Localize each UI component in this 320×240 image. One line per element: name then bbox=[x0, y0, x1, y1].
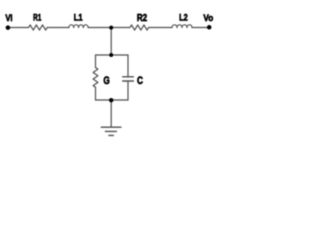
svg-text:R2: R2 bbox=[137, 13, 148, 24]
svg-text:G: G bbox=[103, 75, 109, 87]
svg-text:L2: L2 bbox=[179, 12, 188, 23]
svg-text:R1: R1 bbox=[33, 12, 42, 23]
svg-text:C: C bbox=[137, 75, 143, 87]
svg-text:Vo: Vo bbox=[203, 13, 213, 24]
svg-text:L1: L1 bbox=[74, 12, 83, 23]
svg-text:Vi: Vi bbox=[5, 13, 12, 24]
